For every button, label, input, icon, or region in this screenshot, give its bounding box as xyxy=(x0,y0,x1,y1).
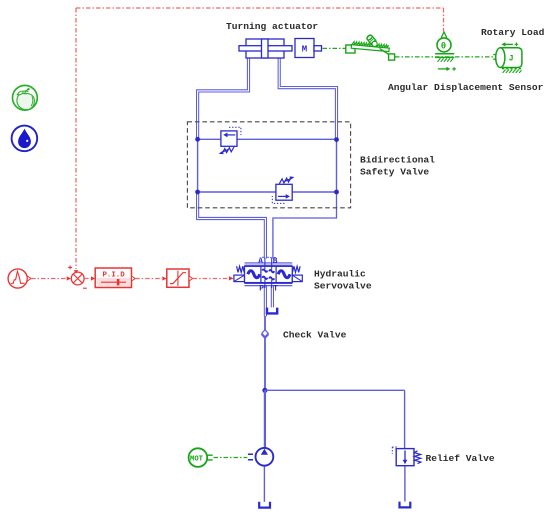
svg-text:B: B xyxy=(273,258,278,266)
library icon: mechanical (apple) xyxy=(13,85,38,110)
svg-text:Hydraulic: Hydraulic xyxy=(314,269,366,280)
right return spring xyxy=(293,266,301,272)
valve body xyxy=(245,266,293,282)
wire: pump branch horizontal xyxy=(265,389,405,391)
saturation block xyxy=(167,269,193,287)
wire: green shaft link M-box to rack xyxy=(323,47,346,49)
top rail pipe xyxy=(245,263,293,265)
tank (relief return) xyxy=(400,502,411,508)
svg-text:θ: θ xyxy=(441,42,446,52)
junction node A2 xyxy=(195,190,200,195)
feedback signal wire (red dash-dot, left vertical) xyxy=(75,8,77,269)
svg-text:MOT: MOT xyxy=(190,455,204,463)
svg-text:Relief Valve: Relief Valve xyxy=(426,453,495,464)
svg-text:P: P xyxy=(259,285,264,293)
svg-text:A: A xyxy=(258,258,263,266)
wire: servovalve port P supply pipe xyxy=(264,285,267,316)
wire: relief valve to tank xyxy=(404,466,406,502)
library icon: hydraulic (drop) xyxy=(12,126,38,152)
junction node B1 xyxy=(334,137,339,142)
svg-text:P.I.D: P.I.D xyxy=(103,271,126,279)
wire: safety valve left vertical link xyxy=(197,139,199,192)
right cell flow squiggle xyxy=(278,271,290,278)
relief valve RV1 (safety, left-top, flow left) xyxy=(219,127,241,154)
left cell flow squiggle xyxy=(248,271,260,278)
svg-text:M: M xyxy=(302,45,307,55)
wire: safety valve right vertical link xyxy=(336,140,338,192)
PID controller xyxy=(95,268,135,288)
wire: safety valve lower branch xyxy=(198,191,337,193)
wire: PID to saturation (red dash-dot) xyxy=(135,278,162,280)
svg-text:T: T xyxy=(273,286,278,294)
wire: cylinder left chamber pipe to safety valve node A1 xyxy=(198,58,249,138)
feedback signal wire (red dash-dot, top) xyxy=(76,7,444,9)
left solenoid xyxy=(234,275,245,282)
wire: green shaft link rack to rotary load xyxy=(395,56,493,58)
centre blocked-port marks xyxy=(262,269,267,271)
angular displacement sensor (theta) xyxy=(435,32,456,71)
svg-text:J: J xyxy=(509,55,514,64)
wire: source to summer (red dash-dot) xyxy=(31,278,67,280)
electric motor MOT xyxy=(189,448,213,467)
rack and pinion (angular displacement linkage) xyxy=(346,34,395,60)
bottom rail pipe xyxy=(245,283,293,285)
wire: safety valve to servovalve port A xyxy=(198,193,266,259)
pump P1 xyxy=(248,448,273,466)
tank T (servovalve return) xyxy=(267,308,277,314)
svg-text:Rotary Load: Rotary Load xyxy=(481,27,545,38)
servovalve (4-port 3-position) xyxy=(234,258,302,289)
svg-text:Turning actuator: Turning actuator xyxy=(226,21,318,32)
wire: pump inlet from tank xyxy=(263,466,265,502)
port stubs xyxy=(265,258,272,289)
wire: safety valve to servovalve port B xyxy=(273,193,337,259)
summing junction xyxy=(67,266,87,289)
wire: motor shaft link (green dash-dot) xyxy=(214,457,248,459)
wire: check valve line xyxy=(264,316,266,388)
wire: cylinder right chamber pipe to safety valve node B1 xyxy=(279,58,336,138)
svg-text:Safety Valve: Safety Valve xyxy=(360,167,429,178)
signal source (duty cycle) xyxy=(8,269,31,288)
turning actuator: motion transformer box M xyxy=(295,39,322,58)
turning actuator: hydraulic cylinder xyxy=(239,39,292,58)
right solenoid xyxy=(292,275,302,282)
wire: safety valve upper branch xyxy=(198,138,337,140)
svg-text:Bidirectional: Bidirectional xyxy=(360,155,435,166)
junction node B2 xyxy=(334,190,339,195)
wire: pump suction riser xyxy=(264,390,266,447)
relief valve RV2 (safety, right-bottom, flow right) xyxy=(272,176,294,203)
feedback signal wire (red dash-dot, down to sensor) xyxy=(443,8,445,32)
wire: relief valve riser xyxy=(404,390,406,448)
servovalve port A/B pipe feet xyxy=(262,256,276,258)
junction node A1 xyxy=(195,137,200,142)
wire: summer to PID (red dash-dot) xyxy=(84,278,91,280)
tank (pump suction) xyxy=(259,502,270,508)
svg-text:Angular Displacement Sensor: Angular Displacement Sensor xyxy=(388,82,544,93)
wire: saturation to servovalve (red dash-dot) xyxy=(193,278,228,280)
relief valve RV3 (system) xyxy=(392,447,421,466)
junction node P1 xyxy=(262,388,267,393)
bidirectional safety valve enclosure (dashed box) xyxy=(187,122,350,208)
rotary load J xyxy=(493,42,522,73)
svg-text:Servovalve: Servovalve xyxy=(314,281,372,292)
svg-text:Check Valve: Check Valve xyxy=(283,330,347,341)
check valve CV1 xyxy=(261,330,268,339)
left return spring xyxy=(237,266,245,272)
wire: servovalve port T to tank xyxy=(271,285,274,307)
